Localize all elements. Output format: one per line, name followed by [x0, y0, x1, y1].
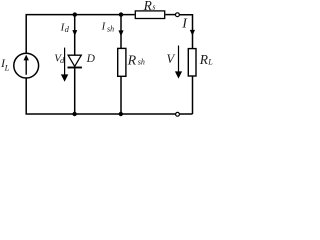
svg-text:s: s [152, 2, 155, 11]
svg-text:R: R [143, 0, 153, 13]
svg-text:L: L [207, 57, 213, 66]
svg-text:d: d [65, 24, 70, 34]
svg-text:D: D [86, 53, 96, 65]
svg-text:L: L [4, 62, 10, 72]
svg-text:sh: sh [138, 58, 145, 67]
svg-text:R: R [127, 53, 137, 68]
svg-text:sh: sh [107, 25, 114, 34]
